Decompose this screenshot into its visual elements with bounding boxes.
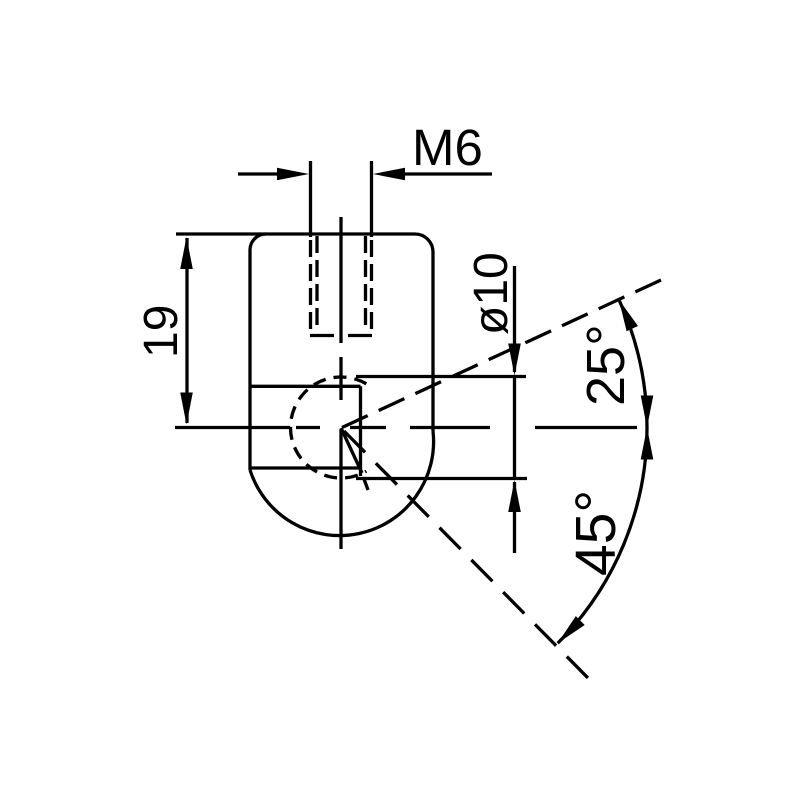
thread major dashed left (309, 240, 312, 336)
25 deg dashed ray (342, 280, 661, 428)
arrow arc45 lower (points down-left along ray) (558, 616, 585, 643)
arrow M6 right (points left) (373, 168, 405, 181)
o10 dim line middle segment (513, 377, 516, 478)
body top line + 19 top extension (176, 232, 415, 235)
arrow arc25 lower (points down at centerline) (641, 396, 654, 428)
body top-right fillet (415, 234, 433, 252)
svg-text:M6: M6 (412, 119, 483, 176)
M6 dimension line right (395, 172, 492, 175)
body right edge (431, 252, 434, 431)
o10 upper dim line (513, 266, 516, 372)
o10 lower dim line (513, 482, 516, 553)
hidden circle o10 (290, 377, 366, 478)
horizontal centerline (175, 426, 290, 429)
thread bottom dash left (310, 334, 334, 337)
slot top edge (250, 385, 361, 388)
slot right edge (359, 386, 362, 476)
M6 extension left (309, 161, 312, 237)
45 deg dashed ray (344, 431, 588, 678)
M6 dimension line left (238, 172, 287, 175)
arrow 19 top (points up) (180, 237, 193, 269)
steep dashed edge (341, 428, 362, 473)
body bottom arc (250, 431, 434, 536)
o10 lower extension (356, 477, 527, 480)
svg-text:45°: 45° (564, 490, 628, 576)
arrow o10 top (points down) (508, 344, 521, 376)
25 deg arc (620, 301, 648, 428)
arrow M6 left (points right) (277, 168, 309, 181)
arrow o10 bottom (points up) (508, 480, 521, 512)
o10 upper extension (356, 375, 526, 378)
M6 extension right (370, 161, 373, 237)
thread minor dashed left (315, 236, 318, 331)
45 deg arc (558, 428, 647, 644)
thread bottom dash right (348, 334, 372, 337)
svg-text:ø10: ø10 (465, 252, 518, 335)
body left edge (248, 250, 251, 470)
svg-text:19: 19 (135, 305, 188, 358)
svg-text:25°: 25° (576, 324, 636, 406)
body top-left fillet (250, 234, 266, 250)
arrow arc25 upper (points up-left along ray) (619, 300, 638, 332)
thread minor dashed right (364, 236, 367, 331)
arrow 19 bottom (points down) (180, 393, 193, 425)
thread major dashed right (370, 240, 373, 336)
vertical centerline (339, 217, 342, 343)
19 dimension line (185, 238, 188, 423)
slot bottom edge (250, 466, 361, 469)
arrow arc45 upper (points up at centerline) (641, 428, 654, 460)
